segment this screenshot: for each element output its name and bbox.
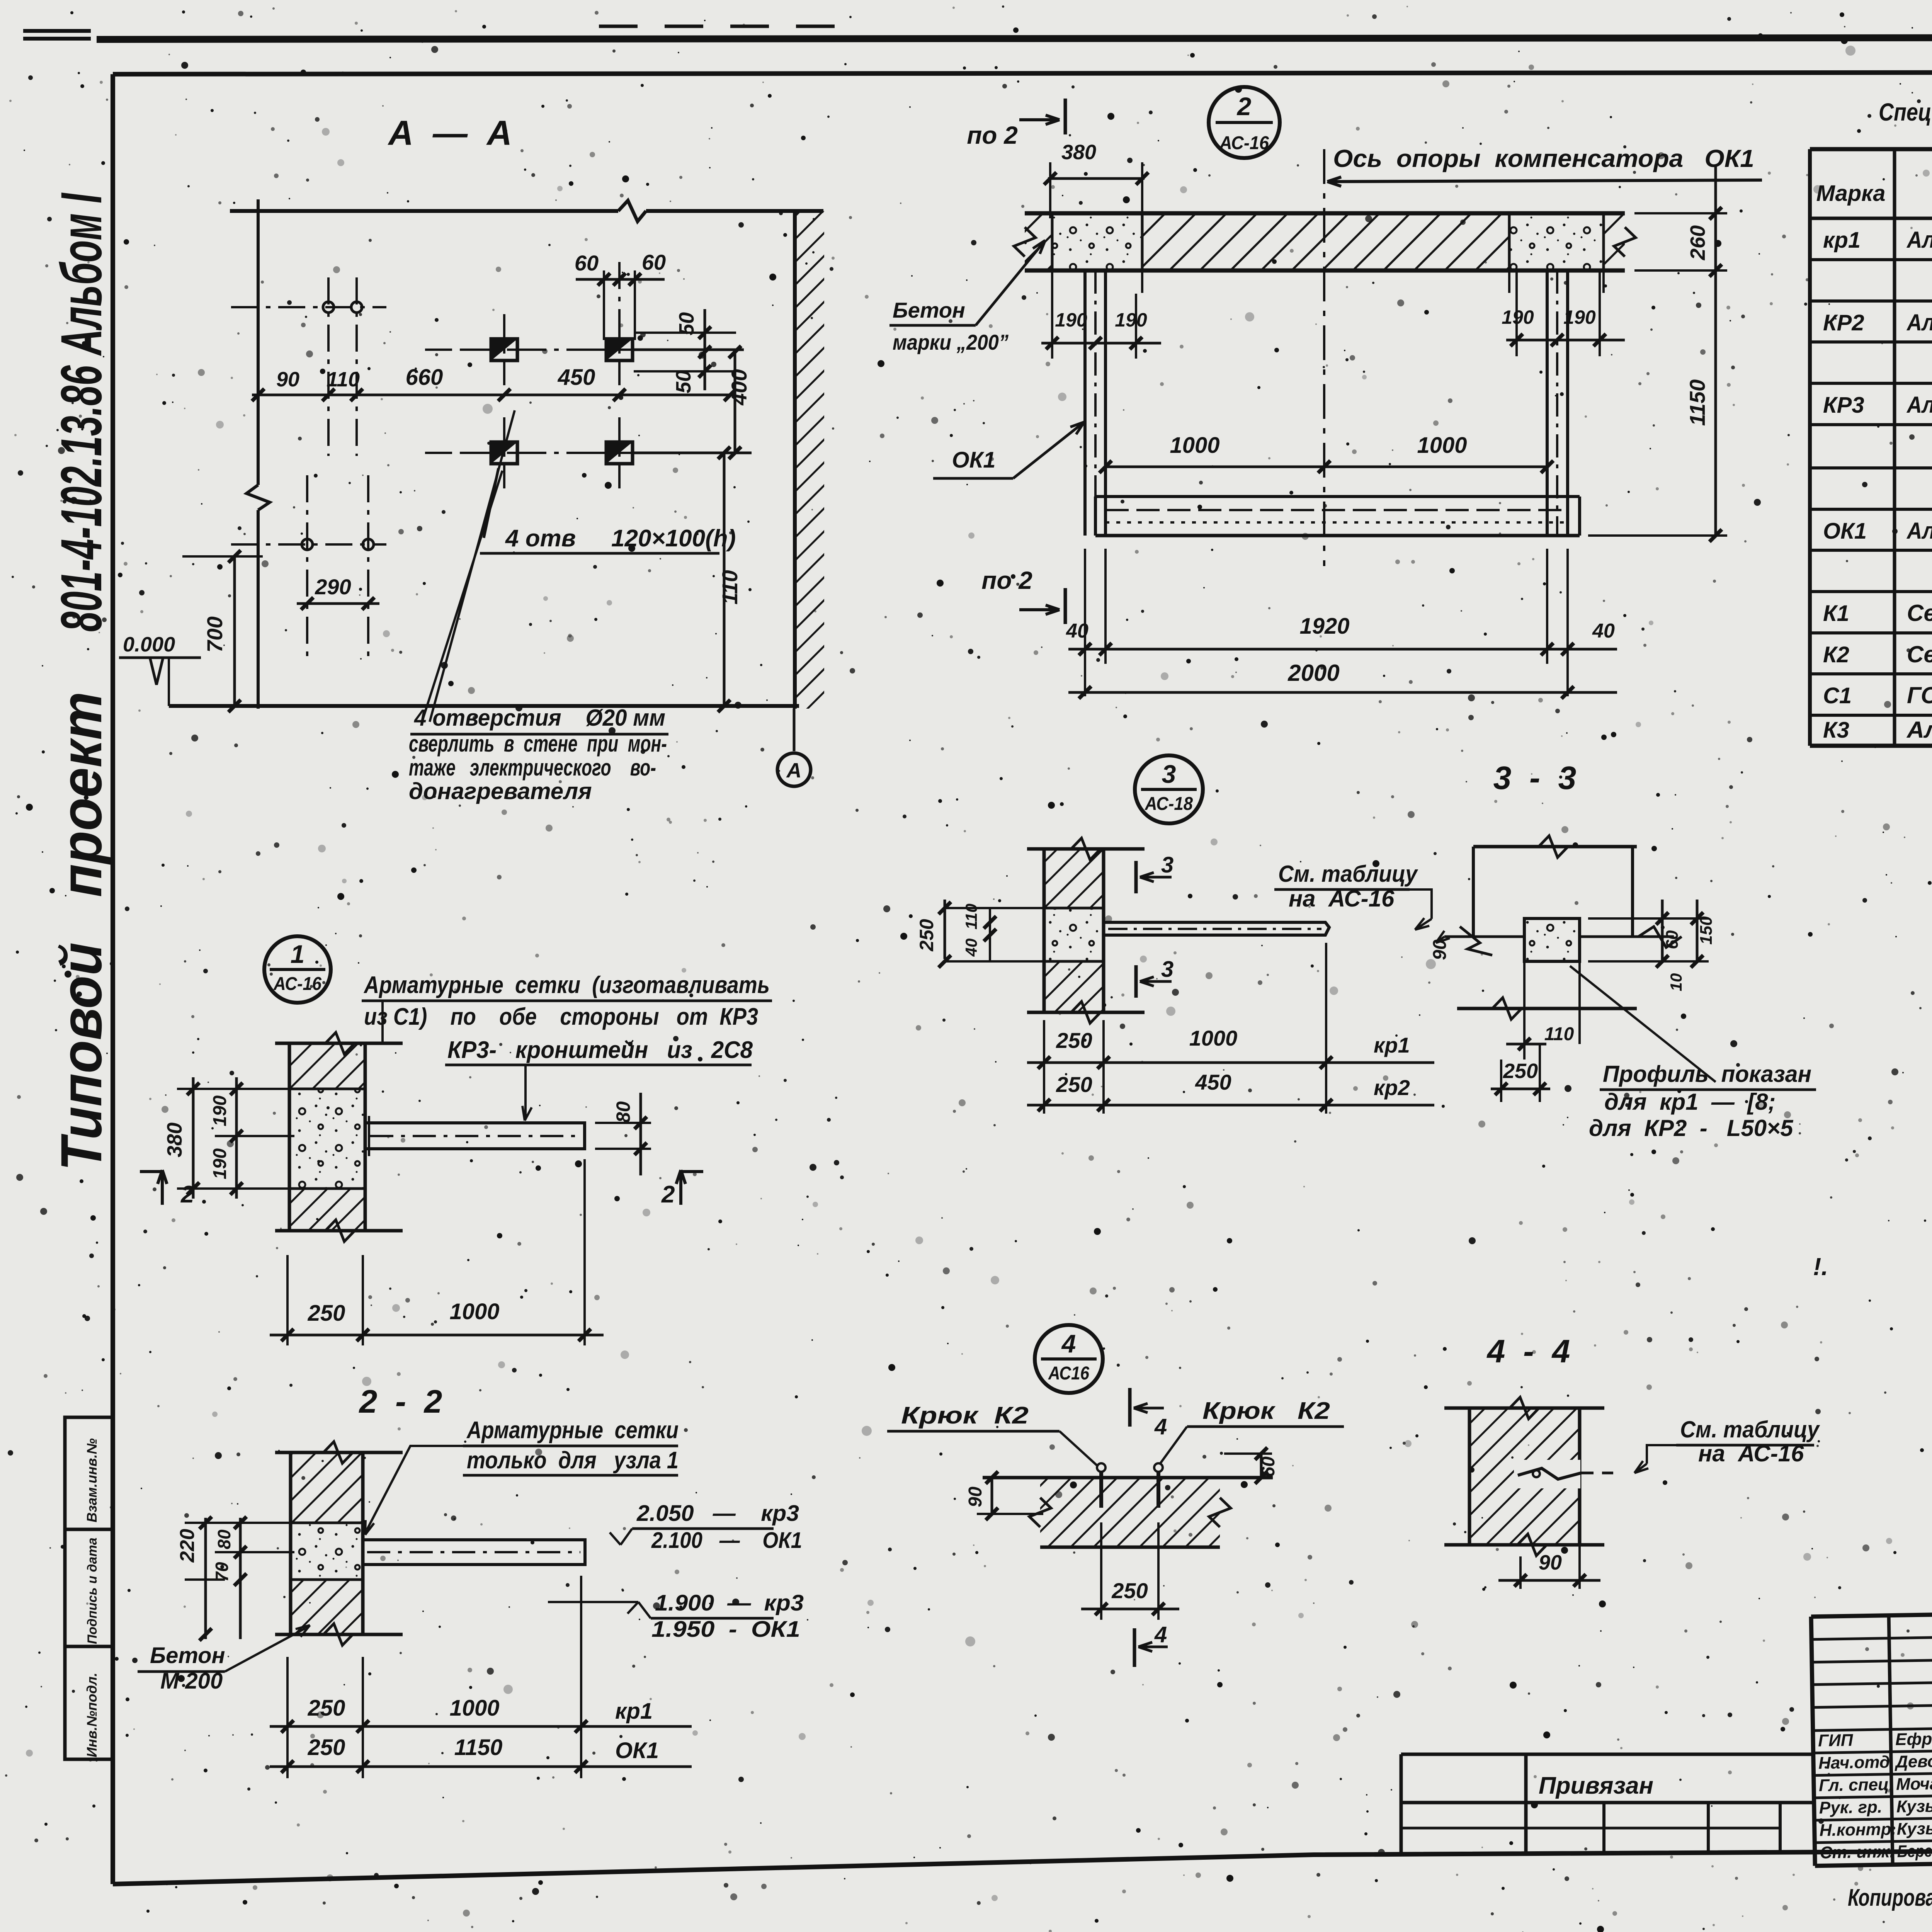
svg-text:по 2: по 2 [981, 566, 1032, 594]
svg-text:400: 400 [727, 369, 751, 405]
svg-text:См. таблицу: См. таблицу [1278, 861, 1418, 887]
A-A dim 700 [233, 556, 236, 706]
svg-text:Альбом III, КЖИ- КР2: Альбом III, КЖИ- КР2 [1906, 310, 1932, 335]
svg-text:1920: 1920 [1299, 614, 1349, 639]
svg-text:4: 4 [1061, 1329, 1076, 1358]
node1 bottom dims [286, 1255, 289, 1345]
svg-text:из С1) по обе стороны: из С1) по обе стороны от КР3 [364, 1003, 758, 1030]
svg-text:700: 700 [202, 616, 227, 652]
svg-text:3: 3 [1161, 852, 1173, 878]
left post [1083, 270, 1087, 536]
svg-text:Рук. гр.: Рук. гр. [1819, 1798, 1883, 1818]
svg-text:250: 250 [308, 1301, 345, 1326]
svg-text:КР3: КР3 [1823, 393, 1864, 418]
section mark 4 top [1128, 1388, 1132, 1427]
svg-text:0.000: 0.000 [123, 633, 175, 656]
4-4 wall [1469, 1408, 1580, 1545]
node circle 4/AC16 [1035, 1325, 1103, 1393]
svg-text:250: 250 [1111, 1578, 1148, 1603]
svg-text:Серия 4.904-69: Серия 4.904-69 [1907, 600, 1932, 626]
svg-text:ОК1: ОК1 [615, 1738, 659, 1763]
node4 dims [991, 1478, 993, 1514]
svg-text:донагревателя: донагревателя [409, 778, 592, 804]
svg-text:К1: К1 [1823, 601, 1849, 626]
node1 wall [289, 1043, 365, 1089]
A-A right wall hatched [795, 211, 824, 709]
hooks [1099, 1463, 1103, 1508]
svg-text:ГИП: ГИП [1818, 1731, 1854, 1750]
svg-text:2: 2 [180, 1181, 194, 1208]
node1 section marks 2 [161, 1170, 164, 1205]
svg-text:Серия 4.904-69: Серия 4.904-69 [1907, 641, 1932, 667]
2-2 wall [291, 1452, 363, 1523]
A-A dim 400 [734, 350, 736, 453]
svg-text:Крюк К2: Крюк К2 [1202, 1398, 1330, 1424]
node3 dims left [944, 900, 946, 959]
svg-text:кр1: кр1 [615, 1699, 653, 1724]
svg-text:260: 260 [1686, 225, 1709, 260]
svg-text:Альбом III КЖИ- К3: Альбом III КЖИ- К3 [1906, 717, 1932, 743]
margin cells [65, 1417, 113, 1529]
A-A dim 110 vertical [723, 453, 726, 706]
svg-text:Подпись и дата: Подпись и дата [85, 1537, 100, 1644]
svg-text:660: 660 [406, 365, 443, 390]
svg-text:Альбом III , КЖИ- ОК1: Альбом III , КЖИ- ОК1 [1906, 518, 1932, 544]
A-A top wall line [230, 209, 618, 213]
svg-text:АС-16: АС-16 [273, 974, 321, 994]
svg-text:50: 50 [675, 312, 698, 335]
svg-text:Бетон: Бетон [150, 1643, 225, 1668]
A-A hole centerlines top pair [327, 277, 330, 456]
spec table grid [1810, 147, 1932, 151]
svg-text:450: 450 [558, 365, 595, 390]
svg-text:801-4-102.13.86 Альбом I: 801-4-102.13.86 Альбом I [49, 192, 114, 632]
svg-text:Н.контр.: Н.контр. [1819, 1820, 1896, 1840]
svg-text:2000: 2000 [1287, 660, 1339, 686]
svg-text:380: 380 [163, 1122, 186, 1157]
svg-text:Арматурные сетки (изготавлив: Арматурные сетки (изготавливать [363, 972, 770, 998]
svg-text:4 отверстия Ø20 мм: 4 отверстия Ø20 мм [414, 705, 665, 731]
svg-text:1150: 1150 [454, 1735, 503, 1760]
2-2 dims left [204, 1518, 207, 1639]
svg-text:50: 50 [672, 370, 695, 393]
svg-text:1000: 1000 [449, 1696, 499, 1721]
svg-text:10: 10 [1667, 973, 1685, 992]
svg-text:190: 190 [1563, 306, 1596, 328]
node circle 1/AC-16 [264, 936, 331, 1003]
svg-text:для КР2 - L50×5: для КР2 - L50×5 [1589, 1115, 1794, 1141]
A-A anchor plates [491, 339, 517, 361]
svg-text:150: 150 [1697, 916, 1716, 945]
svg-text:кр1: кр1 [1374, 1033, 1410, 1057]
svg-text:190: 190 [1115, 309, 1147, 331]
svg-text:120×100(h): 120×100(h) [611, 525, 736, 552]
node3 bottom dim rows [1043, 1020, 1045, 1114]
svg-text:1: 1 [291, 940, 305, 968]
svg-text:АС-16: АС-16 [1219, 133, 1269, 153]
svg-text:250: 250 [308, 1696, 345, 1721]
4-4 dim 90 [1519, 1556, 1522, 1589]
node1 bracket [365, 1123, 585, 1149]
A-A note 4 holes [422, 471, 502, 722]
svg-text:Типовой проект: Типовой проект [49, 692, 114, 1171]
svg-text:250: 250 [308, 1735, 345, 1760]
node circle 3/AC-18 [1135, 755, 1203, 823]
A-A dim 50 50 right [634, 332, 736, 334]
svg-text:К2: К2 [1823, 642, 1849, 667]
svg-text:Альбом III, КЖИ - КР3: Альбом III, КЖИ - КР3 [1906, 392, 1932, 418]
A-A hole centerlines bottom pair [306, 475, 308, 657]
node1 dims left [192, 1077, 195, 1199]
privyazan table [1401, 1753, 1815, 1756]
svg-text:1150: 1150 [1685, 379, 1709, 426]
node1 dim 80 [595, 1122, 651, 1124]
svg-text:К3: К3 [1823, 718, 1849, 743]
slab band hatched [1025, 213, 1625, 270]
svg-text:60: 60 [575, 251, 599, 275]
center axis [1323, 149, 1325, 566]
svg-text:М 200: М 200 [160, 1668, 223, 1694]
svg-text:Копировал: Гордюшина: Копировал: Гордюшина [1848, 1884, 1932, 1911]
svg-text:4 - 4: 4 - 4 [1486, 1333, 1570, 1369]
svg-text:для кр1 — [8;: для кр1 — [8; [1604, 1089, 1776, 1115]
A-A dim 60 60 [603, 270, 605, 340]
svg-text:ОК1: ОК1 [1823, 519, 1867, 544]
svg-text:450: 450 [1195, 1070, 1231, 1094]
svg-text:90: 90 [1430, 939, 1450, 960]
svg-text:1000: 1000 [1189, 1026, 1238, 1050]
svg-text:60: 60 [1258, 1456, 1279, 1477]
svg-text:250: 250 [1503, 1060, 1538, 1083]
bottom channel [1095, 495, 1580, 498]
svg-text:Ефремов: Ефремов [1895, 1729, 1932, 1749]
svg-text:110: 110 [1544, 1024, 1574, 1044]
dim 1150 right [1588, 534, 1727, 537]
svg-text:марки „200”: марки „200” [893, 330, 1009, 354]
svg-text:КР2: КР2 [1823, 310, 1864, 335]
A-A leader 4 otv [484, 468, 498, 538]
sheet top scan edge [23, 29, 91, 33]
svg-text:110: 110 [718, 570, 742, 604]
svg-text:Кузьменко: Кузьменко [1896, 1818, 1932, 1839]
svg-text:Взам.инв.№: Взам.инв.№ [84, 1438, 100, 1522]
svg-text:3: 3 [1161, 957, 1173, 982]
2-2 bracket [363, 1540, 585, 1565]
A-A dim 290 [297, 602, 379, 605]
svg-text:3 - 3: 3 - 3 [1493, 760, 1577, 796]
3-3 bottom [1457, 1007, 1637, 1010]
2-2 bottom dim rows [286, 1657, 289, 1778]
svg-text:А — А: А — А [388, 114, 512, 153]
A-A main horizontal dim line [252, 394, 732, 396]
section mark 4 bottom [1133, 1628, 1136, 1667]
svg-text:Профиль показан: Профиль показан [1603, 1061, 1811, 1087]
svg-text:Привязан: Привязан [1539, 1772, 1653, 1799]
svg-text:190: 190 [1055, 309, 1087, 331]
svg-text:60: 60 [642, 250, 666, 274]
svg-text:Девочкин: Девочкин [1894, 1751, 1932, 1771]
node3 wall [1044, 849, 1104, 908]
node3 bracket [1104, 922, 1329, 935]
svg-text:4: 4 [1154, 1622, 1167, 1647]
svg-text:по 2: по 2 [967, 121, 1018, 149]
svg-text:только для узла 1: только для узла 1 [467, 1447, 679, 1474]
svg-text:90: 90 [276, 368, 299, 391]
main frame [113, 72, 1932, 74]
svg-text:90: 90 [965, 1486, 986, 1507]
svg-text:Спецификация элементов, зама: Спецификация элементов, замаркированных … [1879, 98, 1932, 126]
svg-text:Альбом III , КЖИ- кр1: Альбом III , КЖИ- кр1 [1906, 227, 1932, 253]
svg-text:кр2: кр2 [1374, 1075, 1410, 1100]
svg-text:Инв.№подл.: Инв.№подл. [84, 1673, 100, 1757]
svg-text:80: 80 [612, 1101, 634, 1123]
svg-text:Крюк К2: Крюк К2 [901, 1402, 1029, 1429]
svg-text:110: 110 [962, 904, 980, 930]
svg-text:Ось опоры компенсатора ОК1: Ось опоры компенсатора ОК1 [1333, 145, 1754, 172]
svg-text:1000: 1000 [1417, 433, 1467, 458]
node circle A [777, 753, 811, 786]
svg-text:сверлить в стене при мон-: сверлить в стене при мон- [409, 731, 667, 757]
svg-text:40: 40 [1592, 620, 1615, 642]
right post [1546, 270, 1549, 536]
svg-text:А: А [786, 759, 802, 782]
svg-text:220: 220 [176, 1529, 199, 1563]
4-4 hook symbol [1518, 1468, 1581, 1479]
svg-text:190: 190 [210, 1095, 230, 1126]
svg-text:таже электрического во-: таже электрического во- [409, 755, 656, 781]
svg-text:Арматурные сетки: Арматурные сетки [466, 1417, 679, 1444]
svg-text:Бетон: Бетон [893, 298, 965, 322]
svg-text:кр1: кр1 [1823, 228, 1861, 253]
A-A left vert dimension line [257, 199, 260, 485]
svg-text:КР3- кронштейн из 2С8: КР3- кронштейн из 2С8 [447, 1037, 753, 1063]
svg-text:4: 4 [1154, 1414, 1167, 1439]
node circle 2/AC-16 [1209, 87, 1280, 158]
svg-text:!.: !. [1813, 1253, 1828, 1281]
svg-text:40: 40 [962, 939, 980, 957]
svg-text:250: 250 [1056, 1072, 1092, 1097]
svg-text:Березенцева: Березенцева [1897, 1841, 1932, 1861]
svg-text:2 - 2: 2 - 2 [359, 1383, 442, 1420]
svg-text:1.950 - ОК1: 1.950 - ОК1 [651, 1617, 800, 1642]
svg-text:Кузьменко: Кузьменко [1896, 1796, 1932, 1816]
title block [1811, 1604, 1932, 1866]
svg-text:4 отв: 4 отв [505, 525, 576, 552]
node3 section marks 3 [1134, 861, 1138, 893]
svg-text:С1: С1 [1823, 683, 1852, 708]
svg-text:250: 250 [1056, 1028, 1092, 1053]
leader note to wall [381, 1001, 384, 1043]
svg-text:110: 110 [327, 368, 360, 391]
svg-text:2.100 — ОК1: 2.100 — ОК1 [651, 1528, 802, 1553]
svg-text:90: 90 [1539, 1551, 1562, 1574]
svg-text:Ст. инж.: Ст. инж. [1820, 1842, 1895, 1862]
svg-text:1000: 1000 [1170, 433, 1219, 458]
svg-text:290: 290 [315, 575, 351, 599]
svg-text:80: 80 [214, 1529, 234, 1549]
svg-text:380: 380 [1061, 141, 1096, 164]
svg-text:Мочалов: Мочалов [1896, 1774, 1932, 1794]
svg-text:Гл. спец.: Гл. спец. [1819, 1775, 1894, 1795]
svg-text:3: 3 [1162, 760, 1176, 788]
3-3 view [1473, 845, 1637, 849]
dim 260 right [1634, 212, 1727, 214]
profile note [1570, 966, 1716, 1082]
svg-text:1.900 — кр3: 1.900 — кр3 [655, 1590, 804, 1616]
svg-text:190: 190 [210, 1148, 230, 1179]
svg-text:ГОСТ 8478-81: ГОСТ 8478-81 [1907, 682, 1932, 708]
svg-text:1000: 1000 [449, 1299, 499, 1324]
svg-text:2: 2 [661, 1181, 675, 1208]
svg-text:2.050 — кр3: 2.050 — кр3 [636, 1501, 799, 1526]
svg-text:АС-18: АС-18 [1145, 794, 1193, 814]
svg-text:Нач.отд: Нач.отд [1818, 1753, 1890, 1773]
svg-text:60: 60 [1663, 930, 1682, 949]
svg-text:2: 2 [1236, 92, 1252, 121]
svg-text:250: 250 [916, 919, 937, 952]
svg-text:190: 190 [1502, 306, 1534, 328]
svg-text:ОК1: ОК1 [952, 447, 995, 473]
svg-text:Марка: Марка [1816, 181, 1885, 206]
svg-text:АС16: АС16 [1048, 1363, 1089, 1384]
A-A bottom wall line [169, 704, 799, 708]
node4 slab [1040, 1478, 1220, 1547]
svg-text:См. таблицу: См. таблицу [1680, 1417, 1820, 1442]
patch stubs below slab [1051, 270, 1053, 293]
